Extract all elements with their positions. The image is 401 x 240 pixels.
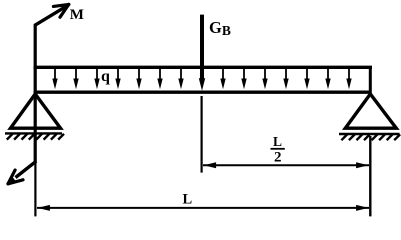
distributed load arrow 1 — [52, 69, 57, 90]
wire right extension line — [369, 136, 371, 216]
distributed load arrow 7 — [178, 69, 183, 90]
svg-text:M: M — [70, 7, 84, 23]
right support ground hatching — [339, 134, 400, 140]
svg-text:L: L — [182, 191, 192, 207]
force G_B arrow — [199, 15, 205, 91]
wire load line top — [34, 66, 372, 69]
distributed load arrow 3 — [94, 69, 99, 90]
wire left extension line — [34, 162, 36, 216]
distributed load arrow 14 — [346, 69, 351, 90]
distributed load arrow 6 — [157, 69, 162, 90]
wire beam bottom — [34, 90, 372, 93]
wire beam right edge — [369, 66, 372, 93]
left support triangle — [11, 94, 61, 128]
left support ground hatching — [5, 133, 64, 139]
moment arrow M bottom — [8, 161, 36, 184]
wire center extension line — [201, 96, 203, 173]
distributed load arrow 13 — [325, 69, 330, 90]
moment arrow M top — [34, 4, 68, 25]
distributed load arrow 5 — [136, 69, 141, 90]
wire moment M lever — [34, 24, 37, 162]
distributed load arrow 9 — [241, 69, 246, 90]
distributed load arrow 8 — [220, 69, 225, 90]
svg-text:L: L — [273, 134, 282, 149]
distributed load arrow 11 — [283, 69, 288, 90]
distributed load arrow 12 — [304, 69, 309, 90]
distributed load arrow 4 — [115, 69, 120, 90]
distributed load arrow 10 — [262, 69, 267, 90]
dimension line L/2 — [203, 162, 369, 168]
svg-text:2: 2 — [274, 150, 282, 166]
right support triangle — [345, 94, 396, 128]
svg-text:q: q — [101, 68, 110, 85]
dimension line L — [37, 205, 369, 211]
distributed load arrow 2 — [73, 69, 78, 90]
label L/2 fraction — [271, 134, 285, 166]
